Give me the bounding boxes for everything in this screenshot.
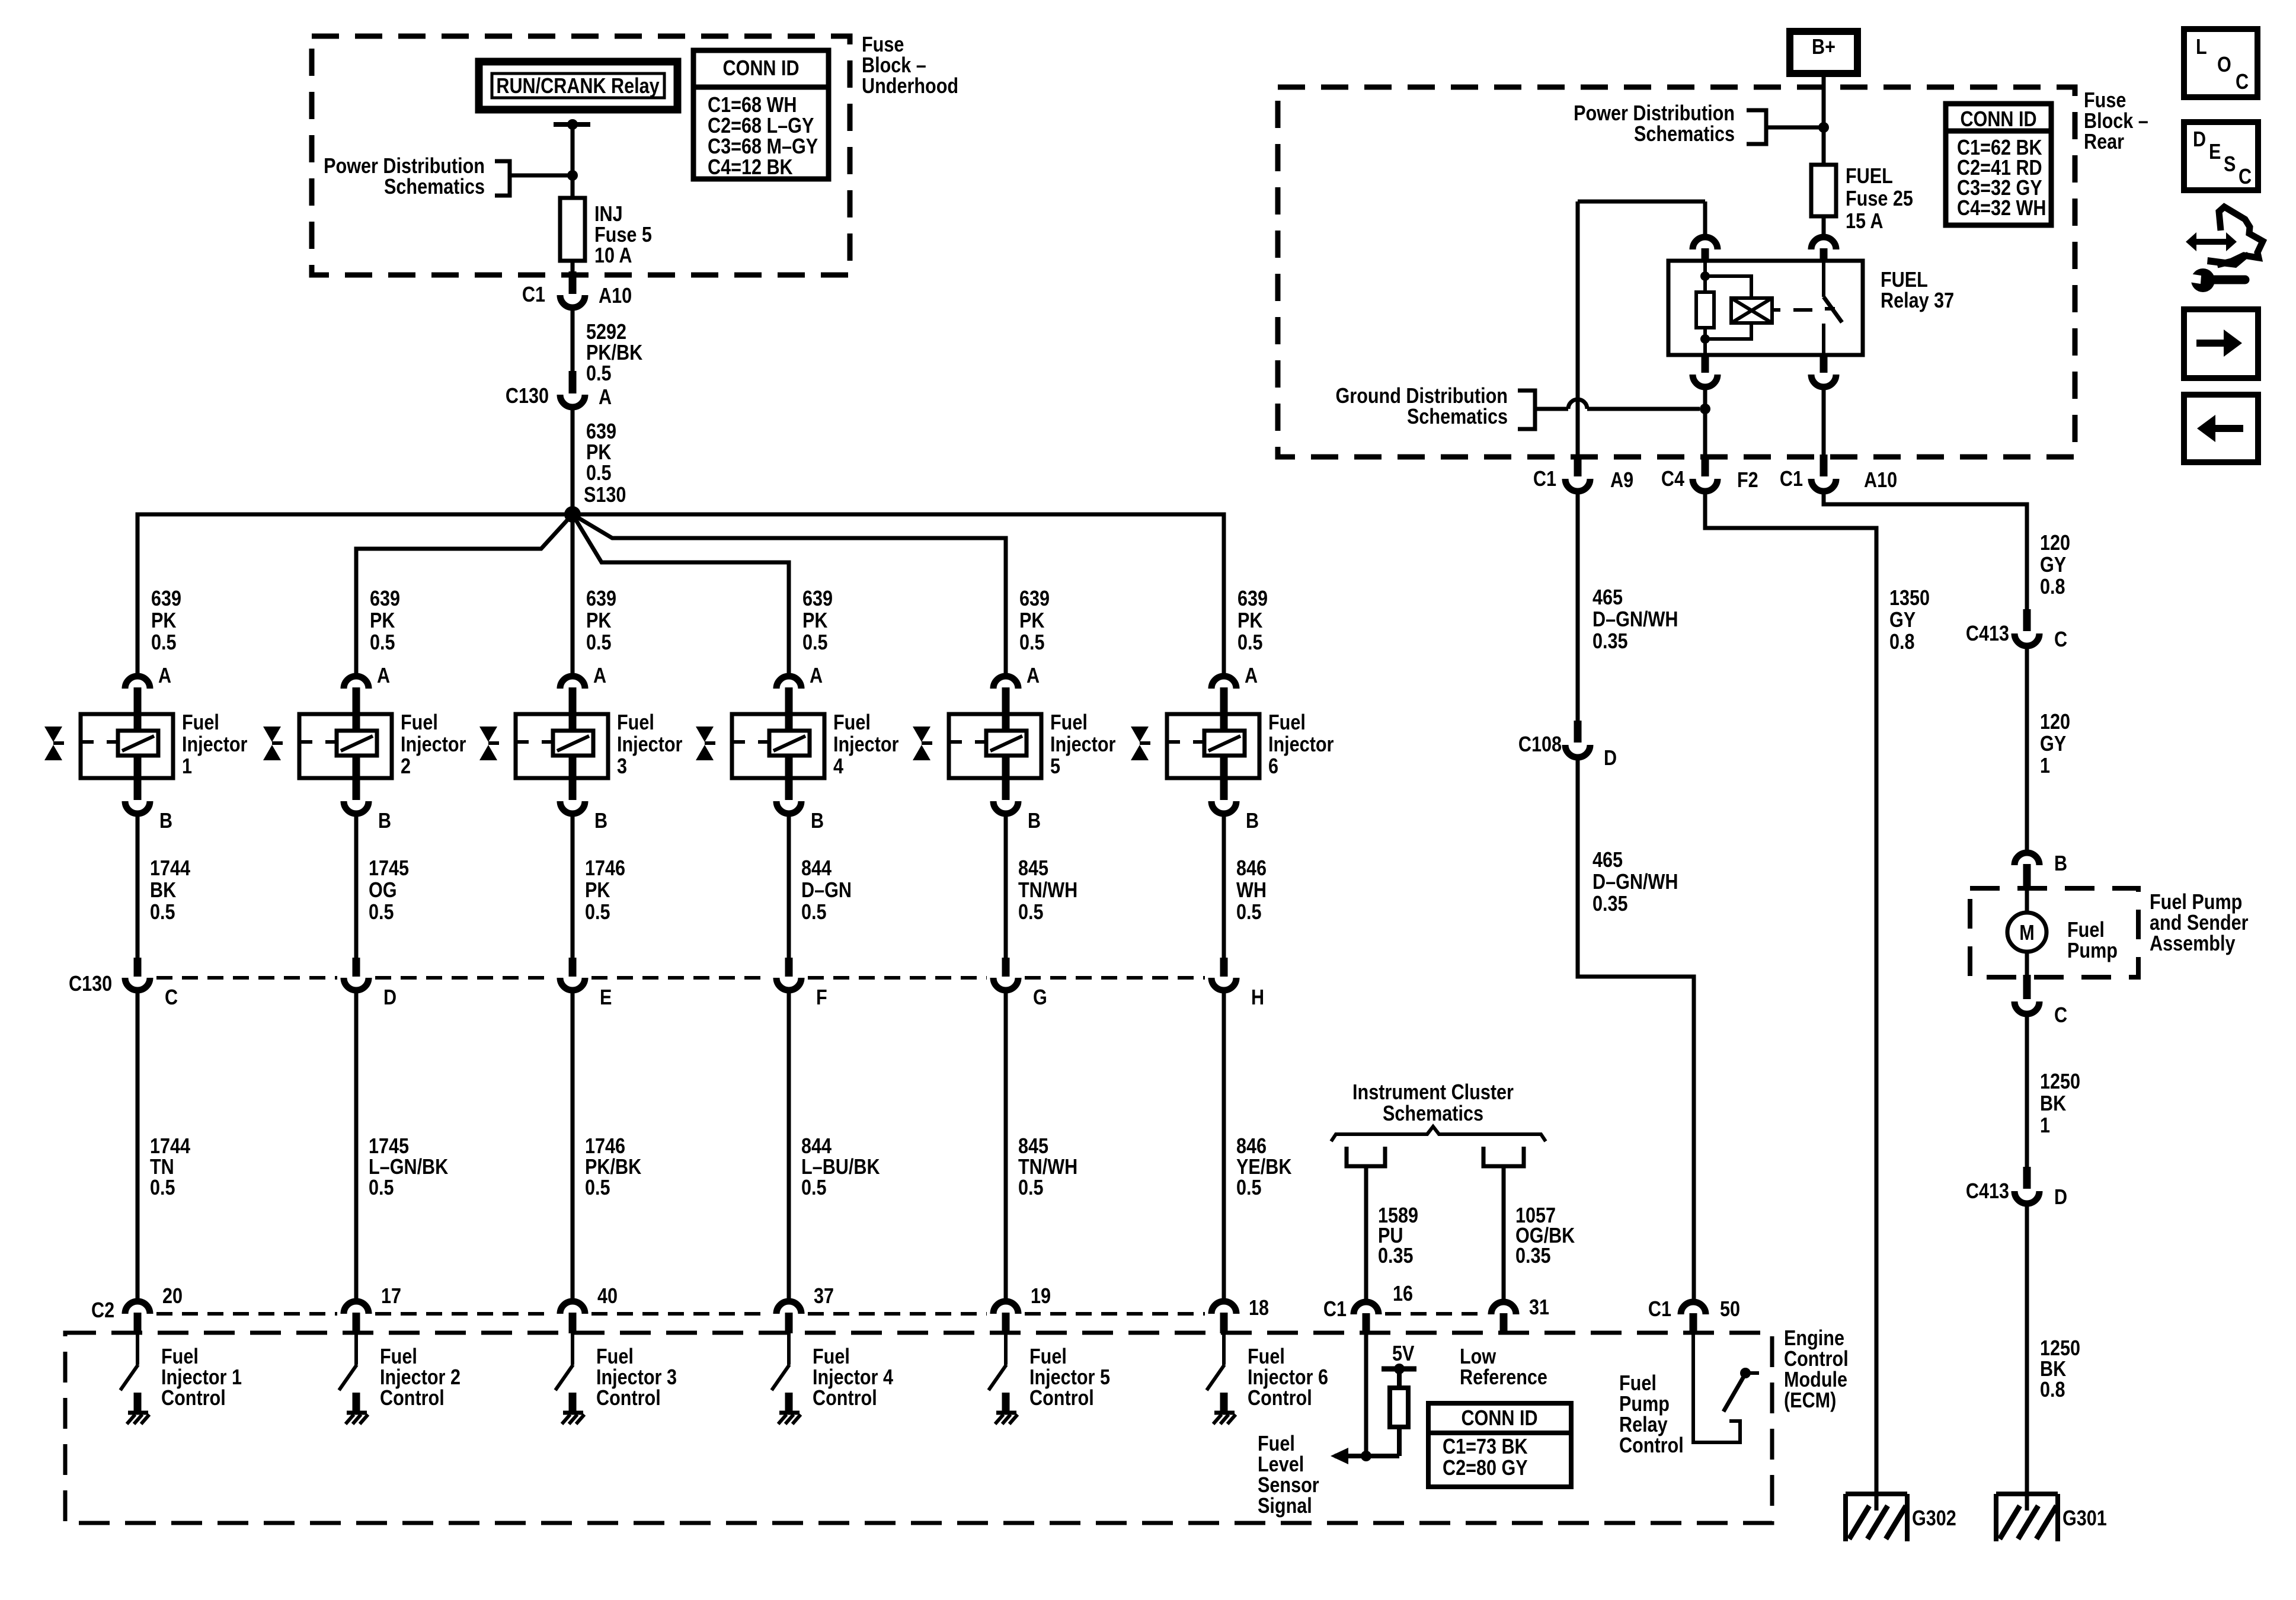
- wire S130 to injector 3: [571, 514, 575, 676]
- fuse block - underhood dashed box: [312, 36, 850, 275]
- relay switch out pin stub: [1820, 355, 1828, 373]
- pin stub C1 A10 rear: [1820, 455, 1828, 476]
- icon LOC box: [2184, 29, 2257, 97]
- svg-text:C2=80 GY: C2=80 GY: [1443, 1457, 1528, 1480]
- svg-text:Fuel: Fuel: [1248, 1345, 1285, 1369]
- wire 1746 PK/BK to ECM: [571, 990, 575, 1301]
- pin stub C2 20: [134, 1313, 142, 1333]
- svg-text:C1: C1: [1323, 1298, 1347, 1321]
- svg-text:Schematics: Schematics: [1634, 123, 1735, 146]
- svg-text:120: 120: [2040, 711, 2070, 734]
- svg-text:PK/BK: PK/BK: [585, 1156, 641, 1179]
- connector C108 D: [1565, 745, 1590, 757]
- connector C413 C: [2014, 633, 2039, 646]
- svg-text:A9: A9: [1610, 469, 1633, 492]
- injector 3 coil: [553, 731, 593, 756]
- svg-text:5V: 5V: [1392, 1342, 1415, 1366]
- pin stub C130 G: [1002, 958, 1010, 977]
- connector pin A injector 2: [344, 676, 369, 689]
- wire fuse to C1 connector: [571, 261, 575, 274]
- svg-text:G302: G302: [1912, 1507, 1956, 1531]
- svg-text:Pump: Pump: [1619, 1393, 1670, 1416]
- relay coil - pin stub: [1702, 355, 1709, 373]
- connector C1 A10 underhood: [560, 295, 585, 308]
- wire resistor to node: [1397, 1427, 1402, 1456]
- pin stub C413 D: [2023, 1167, 2031, 1189]
- svg-text:50: 50: [1720, 1298, 1740, 1321]
- fuel injector 3 box: [516, 714, 608, 778]
- svg-text:Fuel: Fuel: [1050, 711, 1088, 735]
- fuel injector 4 control switch: [787, 1333, 791, 1365]
- pin stub A injector 2: [353, 687, 360, 731]
- 5V supply bar: [1382, 1367, 1416, 1372]
- junction at relay T-bar: [567, 119, 578, 130]
- svg-text:0.5: 0.5: [150, 1176, 175, 1200]
- svg-text:846: 846: [1236, 857, 1267, 881]
- ground (ECM injector 1 control): [128, 1411, 148, 1415]
- svg-text:5292: 5292: [586, 321, 626, 344]
- wire 1589 PU: [1364, 1166, 1368, 1301]
- connector pin B injector 3: [560, 801, 585, 814]
- RUN/CRANK Relay label box inner: [492, 73, 664, 98]
- svg-text:1: 1: [2040, 754, 2050, 778]
- ECM fuel pump relay control driver switch: [1693, 1333, 1740, 1442]
- svg-text:Signal: Signal: [1258, 1495, 1312, 1518]
- wire 1250 BK 1: [2025, 1014, 2029, 1169]
- svg-text:0.8: 0.8: [2040, 1378, 2065, 1402]
- pin stub B injector 3: [569, 756, 577, 800]
- svg-text:0.5: 0.5: [1237, 631, 1263, 655]
- wire injector 4 to C130: [787, 814, 791, 961]
- svg-text:Fuse: Fuse: [862, 33, 904, 57]
- svg-text:E: E: [2209, 140, 2221, 164]
- injector 3 dashed link: [516, 740, 553, 744]
- pin stub A injector 1: [134, 687, 142, 731]
- svg-text:Control: Control: [1248, 1387, 1312, 1410]
- svg-text:15 A: 15 A: [1846, 210, 1883, 233]
- connector relay switch out pin: [1811, 375, 1836, 387]
- wire 5V to resistor: [1397, 1369, 1402, 1388]
- power distribution schematics bracket (right): [1747, 110, 1766, 144]
- wire injector 1 to C130: [136, 814, 140, 961]
- svg-text:0.5: 0.5: [586, 462, 612, 485]
- wire coil - to F2: [1703, 387, 1707, 456]
- pin stub C2 19: [1002, 1313, 1010, 1333]
- svg-text:C: C: [2239, 165, 2252, 189]
- wire node to arrow: [1335, 1454, 1399, 1458]
- CONN ID table ECM: [1428, 1403, 1571, 1487]
- svg-text:Injector: Injector: [1050, 733, 1115, 757]
- svg-text:GY: GY: [2040, 553, 2066, 577]
- svg-text:1745: 1745: [369, 857, 409, 881]
- svg-text:0.8: 0.8: [2040, 575, 2065, 599]
- svg-text:465: 465: [1593, 586, 1623, 610]
- connector C2 pin 37: [776, 1301, 801, 1314]
- svg-text:Fuse 25: Fuse 25: [1846, 187, 1913, 211]
- svg-text:TN: TN: [150, 1156, 174, 1179]
- fuel injector 1 control switch: [136, 1333, 139, 1365]
- junction node fuel level signal: [1361, 1451, 1371, 1461]
- svg-text:Fuel: Fuel: [380, 1345, 417, 1369]
- resistor (fuel level pullup): [1390, 1388, 1408, 1427]
- svg-text:B: B: [594, 809, 607, 833]
- injector 1 valve bowtie: [44, 727, 62, 742]
- svg-text:B+: B+: [1812, 36, 1835, 59]
- svg-text:0.5: 0.5: [1236, 1176, 1262, 1200]
- wire 1744 TN to ECM: [136, 990, 140, 1301]
- connector C1 pin 50: [1681, 1302, 1706, 1314]
- icon back arrow box: [2184, 395, 2258, 462]
- wire relay to INJ fuse: [571, 124, 575, 198]
- relay switch: [1822, 261, 1825, 297]
- svg-text:Injector: Injector: [617, 733, 682, 757]
- svg-text:A: A: [593, 664, 606, 688]
- relay coil symbol box: [1731, 298, 1772, 323]
- wire 120 GY 1: [2025, 646, 2029, 852]
- svg-text:C1: C1: [1648, 1298, 1671, 1321]
- ground G301: [1996, 1492, 2058, 1496]
- svg-text:0.5: 0.5: [585, 901, 610, 924]
- svg-text:Level: Level: [1258, 1453, 1304, 1477]
- svg-text:FUEL: FUEL: [1881, 268, 1928, 292]
- svg-text:Fuel: Fuel: [813, 1345, 850, 1369]
- svg-text:PK/BK: PK/BK: [586, 341, 642, 365]
- connector pin B injector 6: [1211, 801, 1236, 814]
- connector pin A injector 4: [776, 676, 801, 689]
- T-bar under RUN/CRANK relay: [554, 122, 590, 127]
- splice S130: [564, 506, 581, 523]
- wire injector 5 to C130: [1004, 814, 1008, 961]
- pin stub C413 C: [2023, 609, 2031, 631]
- connector C130 pin E: [560, 978, 585, 990]
- connector C130 pin C: [125, 978, 150, 990]
- svg-text:Control: Control: [1784, 1348, 1849, 1371]
- power distribution schematics bracket (left): [495, 161, 510, 196]
- svg-text:M: M: [2019, 921, 2034, 945]
- wire S130 to injector 6: [573, 514, 1224, 676]
- injector 4 coil slash: [773, 736, 805, 751]
- svg-text:PK: PK: [151, 609, 176, 633]
- injector 1 coil slash: [122, 736, 154, 751]
- connector pin A injector 6: [1211, 676, 1236, 689]
- injector 2 coil: [337, 731, 377, 756]
- svg-text:Fuel Pump: Fuel Pump: [2150, 891, 2242, 914]
- connector fuel pump B: [2014, 853, 2039, 865]
- svg-text:C413: C413: [1966, 1180, 2009, 1204]
- injector 4 valve bowtie: [696, 727, 714, 742]
- svg-text:Schematics: Schematics: [1383, 1102, 1483, 1126]
- svg-text:C2: C2: [91, 1299, 114, 1323]
- connector C130 pin G: [993, 978, 1018, 990]
- injector 1 coil: [118, 731, 158, 756]
- svg-text:Fuel: Fuel: [1268, 711, 1306, 735]
- wire 465 D-GN/WH lower to ECM pin 50: [1578, 757, 1694, 1301]
- svg-text:RUN/CRANK Relay: RUN/CRANK Relay: [496, 75, 660, 98]
- svg-text:Injector: Injector: [182, 733, 247, 757]
- connector pin A injector 3: [560, 676, 585, 689]
- wire relay coil feed top: [1578, 200, 1705, 204]
- svg-text:Fuel: Fuel: [1029, 1345, 1067, 1369]
- fuel injector 1 box: [81, 714, 173, 778]
- svg-text:Block –: Block –: [862, 54, 926, 78]
- svg-text:D: D: [383, 986, 396, 1010]
- pin stub pump C: [2023, 975, 2031, 999]
- svg-text:C: C: [165, 986, 178, 1010]
- svg-text:0.5: 0.5: [370, 631, 395, 655]
- fuel injector 5 box: [949, 714, 1041, 778]
- svg-text:Fuse: Fuse: [2084, 89, 2126, 113]
- svg-text:16: 16: [1393, 1282, 1413, 1306]
- svg-text:L–GN/BK: L–GN/BK: [369, 1156, 448, 1179]
- pin stub C130 E: [569, 958, 577, 977]
- wire injector 6 to C130: [1222, 814, 1226, 961]
- wire 465 D-GN/WH upper: [1576, 491, 1580, 723]
- CONN ID rear divider: [1946, 129, 2051, 134]
- fuel pump and sender assembly dashed box: [1970, 888, 2138, 977]
- svg-text:(ECM): (ECM): [1784, 1389, 1836, 1413]
- svg-text:G301: G301: [2062, 1507, 2107, 1531]
- svg-text:C4=32 WH: C4=32 WH: [1957, 197, 2046, 220]
- svg-text:6: 6: [1268, 755, 1278, 779]
- svg-text:PK: PK: [370, 609, 395, 633]
- svg-text:639: 639: [370, 587, 400, 611]
- svg-text:A10: A10: [599, 284, 632, 308]
- svg-text:C1=68 WH: C1=68 WH: [708, 94, 797, 117]
- svg-text:5: 5: [1050, 755, 1060, 779]
- connector pin B injector 1: [125, 801, 150, 814]
- injector 5 coil slash: [990, 736, 1022, 751]
- svg-text:BK: BK: [2040, 1092, 2066, 1116]
- pin stub C130 C: [134, 958, 142, 977]
- svg-text:Injector 6: Injector 6: [1248, 1366, 1328, 1390]
- junction dot power distribution: [567, 170, 578, 181]
- pin stub C2 17: [353, 1313, 360, 1333]
- pin stub C2 40: [569, 1313, 577, 1333]
- pin stub C1 A9: [1574, 455, 1582, 476]
- arrow fuel level sensor signal: [1331, 1448, 1348, 1464]
- svg-text:0.35: 0.35: [1593, 630, 1628, 654]
- wire B+ to fuse 25: [1822, 73, 1826, 165]
- wire 639 PK to S130: [571, 407, 575, 510]
- connector relay coil + pin: [1693, 237, 1718, 249]
- svg-text:0.5: 0.5: [801, 901, 827, 924]
- svg-text:A: A: [158, 664, 171, 688]
- svg-text:1746: 1746: [585, 857, 625, 881]
- fuel injector 5 control switch: [1004, 1333, 1008, 1365]
- svg-text:PK: PK: [586, 441, 611, 465]
- connector pump C: [2014, 1001, 2039, 1014]
- svg-text:0.5: 0.5: [801, 1176, 827, 1200]
- injector 2 coil slash: [341, 736, 373, 751]
- fuel injector 6 control switch: [1222, 1333, 1226, 1365]
- connector C1 A9: [1565, 479, 1590, 491]
- connector C1 pin 16: [1354, 1302, 1379, 1314]
- svg-text:GY: GY: [2040, 732, 2066, 756]
- svg-text:845: 845: [1018, 1135, 1048, 1159]
- fuse FUEL Fuse 25 15A: [1811, 165, 1836, 216]
- svg-text:1: 1: [182, 755, 192, 779]
- pin stub A injector 6: [1220, 687, 1228, 731]
- injector 4 coil: [769, 731, 810, 756]
- CONN ID table underhood divider: [693, 85, 829, 90]
- svg-text:Injector: Injector: [401, 733, 466, 757]
- svg-text:0.5: 0.5: [369, 1176, 394, 1200]
- pin stub C2 18: [1220, 1313, 1228, 1333]
- svg-text:Injector: Injector: [1268, 733, 1334, 757]
- svg-text:C2=68 L–GY: C2=68 L–GY: [708, 114, 814, 138]
- ground G302: [1846, 1492, 1907, 1496]
- wire fuse to relay switch pin: [1822, 216, 1826, 236]
- svg-text:0.8: 0.8: [1889, 631, 1915, 654]
- svg-text:B: B: [811, 809, 824, 833]
- injector 3 valve bowtie: [479, 727, 497, 742]
- svg-text:0.5: 0.5: [586, 362, 612, 386]
- svg-text:3: 3: [617, 755, 627, 779]
- injector 5 coil: [986, 731, 1027, 756]
- fuel injector 4 box: [732, 714, 824, 778]
- svg-text:BK: BK: [150, 879, 176, 903]
- svg-text:D: D: [2193, 128, 2206, 152]
- B+ box: [1790, 31, 1857, 73]
- fuel injector 2 control switch: [354, 1333, 358, 1365]
- svg-text:Schematics: Schematics: [1407, 405, 1508, 429]
- svg-text:G: G: [1033, 986, 1047, 1010]
- svg-text:A10: A10: [1864, 469, 1897, 492]
- svg-text:18: 18: [1249, 1297, 1269, 1320]
- injector 3 coil slash: [557, 736, 589, 751]
- svg-text:C: C: [2054, 628, 2067, 652]
- svg-text:639: 639: [586, 587, 616, 611]
- svg-text:0.5: 0.5: [151, 631, 177, 655]
- svg-text:Fuel: Fuel: [1258, 1432, 1295, 1456]
- ground (ECM injector 5 control): [996, 1411, 1016, 1415]
- svg-text:CONN ID: CONN ID: [1461, 1407, 1537, 1431]
- svg-text:0.5: 0.5: [1236, 901, 1262, 924]
- svg-text:639: 639: [1019, 587, 1050, 611]
- pin stub B injector 4: [785, 756, 793, 800]
- wire 846 YE/BK to ECM: [1222, 990, 1226, 1301]
- svg-text:C1: C1: [1533, 468, 1556, 491]
- svg-text:Fuel: Fuel: [596, 1345, 634, 1369]
- pin stub B injector 5: [1002, 756, 1010, 800]
- svg-text:846: 846: [1236, 1135, 1267, 1159]
- svg-text:Control: Control: [596, 1387, 661, 1410]
- wire 120 GY 0.8: [1824, 491, 2027, 612]
- connector pin B injector 5: [993, 801, 1018, 814]
- svg-text:Power Distribution: Power Distribution: [1574, 102, 1735, 126]
- svg-text:1250: 1250: [2040, 1337, 2080, 1361]
- CONN ID table rear: [1946, 104, 2051, 225]
- svg-text:C413: C413: [1966, 622, 2009, 646]
- svg-text:Control: Control: [813, 1387, 877, 1410]
- svg-text:C4: C4: [1661, 468, 1684, 491]
- svg-text:Fuel: Fuel: [617, 711, 654, 735]
- svg-text:S130: S130: [584, 484, 626, 507]
- svg-text:Injector: Injector: [833, 733, 898, 757]
- svg-text:31: 31: [1529, 1296, 1549, 1320]
- svg-text:PK: PK: [586, 609, 611, 633]
- svg-text:D: D: [2054, 1186, 2067, 1209]
- svg-text:1744: 1744: [150, 1135, 190, 1159]
- svg-text:Schematics: Schematics: [384, 175, 485, 199]
- svg-text:0.5: 0.5: [369, 901, 394, 924]
- svg-text:D–GN/WH: D–GN/WH: [1593, 871, 1678, 894]
- svg-text:Control: Control: [1029, 1387, 1094, 1410]
- svg-text:C: C: [2054, 1004, 2067, 1028]
- instrument cluster terminal (low reference): [1483, 1147, 1524, 1166]
- relay actuation linkage dashes: [1772, 308, 1780, 312]
- C2/C1 connector row dashed line: [156, 1312, 337, 1316]
- connector pin A injector 1: [125, 676, 150, 689]
- svg-text:4: 4: [833, 755, 843, 779]
- connector C130 pin H: [1211, 978, 1236, 990]
- injector 2 valve bowtie: [263, 727, 281, 742]
- svg-text:A: A: [810, 664, 823, 688]
- ground distribution schematics bracket: [1518, 391, 1535, 429]
- FUEL Relay 37 box: [1668, 261, 1863, 355]
- svg-text:1744: 1744: [150, 857, 190, 881]
- connector C413 D: [2014, 1191, 2039, 1204]
- svg-text:Assembly: Assembly: [2150, 932, 2236, 956]
- svg-text:0.5: 0.5: [150, 901, 175, 924]
- svg-text:OG: OG: [369, 879, 397, 903]
- pin stub C4 F2: [1702, 455, 1709, 476]
- junction at 5V bar: [1394, 1364, 1405, 1374]
- svg-text:C4=12 BK: C4=12 BK: [708, 156, 793, 180]
- svg-text:PK: PK: [802, 609, 827, 633]
- wire motor to C pin: [2025, 950, 2029, 977]
- svg-text:B: B: [1246, 809, 1259, 833]
- icon forward arrow box: [2184, 309, 2258, 378]
- connector pin A injector 5: [993, 676, 1018, 689]
- injector 1 dashed link: [81, 740, 118, 744]
- svg-text:Relay 37: Relay 37: [1881, 289, 1954, 313]
- svg-text:C130: C130: [69, 972, 112, 996]
- svg-text:1746: 1746: [585, 1135, 625, 1159]
- svg-text:F2: F2: [1737, 469, 1758, 492]
- pin stub C108 D: [1574, 721, 1582, 743]
- svg-text:A: A: [377, 664, 390, 688]
- svg-text:Fuse 5: Fuse 5: [594, 223, 652, 247]
- svg-text:0.5: 0.5: [585, 1176, 610, 1200]
- wire 1057 OG/BK: [1502, 1166, 1506, 1301]
- pin stub B injector 2: [353, 756, 360, 800]
- svg-text:Fuel: Fuel: [2067, 919, 2105, 942]
- instrument cluster terminal (fuel level signal): [1347, 1147, 1385, 1166]
- ground (ECM injector 4 control): [779, 1411, 800, 1415]
- svg-text:S: S: [2224, 153, 2236, 177]
- svg-text:GY: GY: [1889, 609, 1916, 632]
- svg-text:Injector 4: Injector 4: [813, 1366, 893, 1390]
- svg-text:0.5: 0.5: [802, 631, 828, 655]
- pin stub C2 37: [785, 1313, 793, 1333]
- svg-text:639: 639: [802, 587, 833, 611]
- svg-text:C3=68 M–GY: C3=68 M–GY: [708, 135, 818, 159]
- wire 1250 BK 0.8 to G301: [2025, 1204, 2029, 1493]
- svg-text:PK: PK: [1237, 609, 1262, 633]
- connector C2 pin 18: [1211, 1301, 1236, 1314]
- svg-text:Control: Control: [380, 1387, 445, 1410]
- svg-text:C1: C1: [522, 283, 545, 307]
- svg-text:Control: Control: [161, 1387, 226, 1410]
- icon wiring/wrench: [2186, 232, 2237, 251]
- svg-text:D–GN/WH: D–GN/WH: [1593, 608, 1678, 632]
- svg-text:Rear: Rear: [2084, 130, 2124, 154]
- svg-text:19: 19: [1031, 1285, 1051, 1308]
- injector 6 dashed link: [1167, 740, 1204, 744]
- svg-text:B: B: [1028, 809, 1041, 833]
- injector 6 valve bowtie: [1131, 727, 1149, 742]
